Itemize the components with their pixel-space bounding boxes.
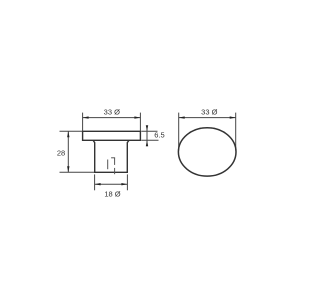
svg-text:33 Ø: 33 Ø	[201, 108, 217, 117]
svg-text:6.5: 6.5	[154, 131, 164, 140]
svg-text:18 Ø: 18 Ø	[104, 190, 120, 199]
svg-text:33 Ø: 33 Ø	[104, 108, 120, 117]
svg-text:28: 28	[57, 149, 65, 158]
